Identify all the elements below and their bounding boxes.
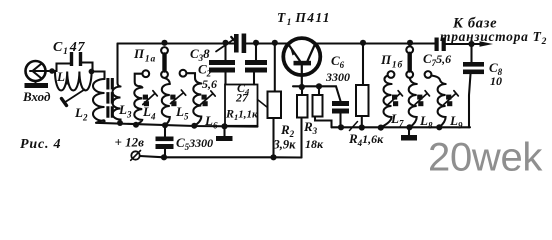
svg-text:С53300: С53300 bbox=[176, 135, 213, 152]
svg-text:R41,6к: R41,6к bbox=[348, 131, 384, 148]
svg-text:Рис. 4: Рис. 4 bbox=[20, 137, 61, 152]
svg-text:27: 27 bbox=[235, 91, 249, 105]
svg-text:10: 10 bbox=[490, 74, 502, 88]
svg-text:R11,1к: R11,1к bbox=[225, 107, 258, 123]
svg-text:3,9к: 3,9к bbox=[273, 138, 297, 152]
svg-text:Вход: Вход bbox=[22, 89, 51, 104]
svg-text:С75,6: С75,6 bbox=[423, 51, 451, 68]
svg-text:С147: С147 bbox=[53, 40, 86, 57]
svg-text:18к: 18к bbox=[305, 137, 324, 151]
svg-text:+ 12в: + 12в bbox=[115, 135, 145, 150]
svg-text:20wek: 20wek bbox=[428, 136, 543, 180]
svg-text:5,6: 5,6 bbox=[202, 77, 217, 91]
svg-text:3300: 3300 bbox=[325, 70, 350, 84]
